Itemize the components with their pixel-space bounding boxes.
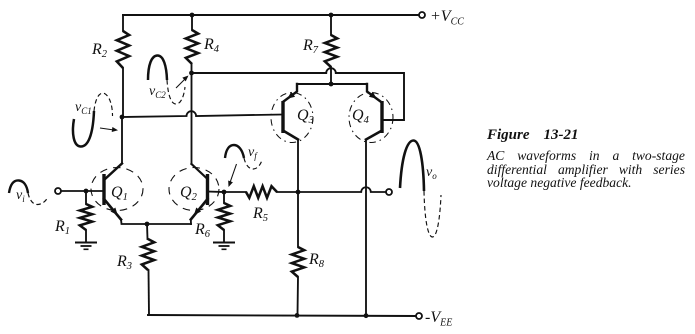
transistor Q4 — [366, 84, 382, 140]
junction emitter tee — [329, 82, 334, 87]
svg-text:R5: R5 — [252, 205, 268, 224]
svg-text:R6: R6 — [194, 221, 211, 240]
resistor R1 — [80, 191, 92, 242]
svg-text:Q3: Q3 — [297, 107, 314, 126]
svg-text:Q4: Q4 — [352, 107, 370, 126]
svg-text:R1: R1 — [54, 218, 70, 237]
vf waveform — [225, 145, 262, 169]
vC2 waveform — [148, 56, 185, 105]
wire R5 to output node — [277, 191, 298, 193]
svg-text:-VEE: -VEE — [425, 309, 452, 329]
vC1 arrow — [100, 127, 118, 133]
wire Q1 emitter to common node — [121, 220, 191, 225]
vi waveform — [9, 180, 48, 204]
wire vC2 node to Q4 base (hop over R7) — [192, 68, 405, 120]
junction R1 top — [84, 189, 89, 194]
svg-text:R7: R7 — [302, 37, 319, 56]
svg-text:Q2: Q2 — [180, 184, 198, 203]
figure caption — [487, 128, 685, 190]
junction output node — [296, 190, 301, 195]
+Vcc terminal — [419, 12, 425, 18]
wire emitter tee bar — [297, 83, 367, 85]
-Vee rail — [148, 315, 416, 316]
wire R4 bottom to Q2 collector — [191, 64, 193, 164]
wire Q1 collector — [121, 117, 123, 164]
svg-text:vC1: vC1 — [75, 100, 92, 116]
svg-text:R8: R8 — [308, 251, 325, 270]
wire Q3 collector to output node — [297, 140, 299, 193]
Q3 envelope — [271, 93, 313, 143]
transistor Q3 — [283, 84, 298, 140]
wire R3 to -Vee rail — [148, 270, 151, 315]
junction Q4 collector bottom — [364, 313, 369, 318]
ground R1 — [75, 243, 97, 250]
Q1 dashed envelope — [91, 168, 143, 211]
svg-text:Q1: Q1 — [111, 184, 128, 203]
resistor R2 — [117, 31, 129, 68]
wire vf node to R5 — [224, 191, 246, 193]
transistor Q2 — [191, 164, 208, 220]
junction R3 top — [145, 222, 150, 227]
wire Q2 emitter to common node — [190, 220, 192, 225]
svg-text:R4: R4 — [203, 36, 220, 55]
wire R7 bottom through hop to emitter tee — [330, 67, 332, 84]
svg-text:R3: R3 — [116, 253, 132, 272]
wire Q1 base — [61, 190, 104, 192]
wire R2 top — [122, 15, 124, 31]
vf arrow — [226, 164, 236, 188]
svg-text:vi: vi — [16, 188, 25, 204]
svg-text:vf: vf — [248, 145, 258, 161]
junction R8 bottom — [295, 313, 300, 318]
resistor R5 — [246, 186, 277, 198]
top supply rail to +Vcc — [123, 14, 419, 16]
svg-text:+VCC: +VCC — [430, 8, 464, 28]
transistor Q1 — [104, 174, 121, 220]
svg-text:vC2: vC2 — [149, 84, 166, 100]
svg-text:vo: vo — [426, 165, 437, 181]
junction R7 top — [329, 13, 334, 18]
node vC2 junction — [189, 71, 194, 76]
-Vee terminal — [416, 313, 422, 319]
wire Q4 collector to -Vee rail — [365, 140, 367, 317]
node vf junction — [222, 190, 227, 195]
resistor R8 — [292, 192, 304, 315]
vo waveform — [400, 141, 441, 238]
Q2 dashed envelope — [169, 168, 219, 211]
svg-text:R2: R2 — [91, 41, 108, 60]
ground R6 — [213, 243, 235, 250]
resistor R4 — [186, 30, 198, 64]
vC2 arrow — [176, 74, 190, 88]
output terminal — [386, 189, 392, 195]
wire Q2 base to vf node — [208, 191, 225, 194]
vC1 waveform — [73, 93, 113, 146]
wire vC1 node to Q3 base (hop over Q2 collector) — [122, 111, 283, 117]
resistor R6 — [218, 192, 230, 242]
resistor R7 — [325, 15, 337, 67]
wire R4 top — [191, 15, 193, 30]
resistor R3 — [142, 224, 154, 270]
wire R2 bottom to vC1 node — [122, 68, 124, 117]
input terminal — [55, 188, 61, 194]
junction R4 top — [190, 13, 195, 18]
Q4 envelope — [349, 93, 393, 143]
node vC1 junction — [120, 115, 125, 120]
wire output node to output terminal (hop over Q4 collector) — [298, 187, 386, 192]
